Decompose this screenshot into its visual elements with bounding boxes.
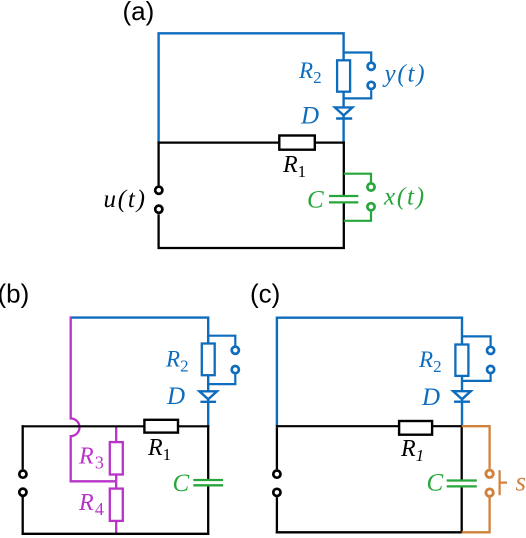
svg-text:R2: R2 — [418, 347, 442, 376]
terminal (b) input lower — [19, 489, 26, 496]
svg-text:R3: R3 — [78, 444, 104, 473]
svg-text:C: C — [427, 470, 444, 497]
svg-text:R2: R2 — [298, 58, 322, 87]
wire: (b) blue R2 bottom to diode — [207, 375, 209, 392]
wire: (b) blue branch from lower terminal — [208, 373, 235, 384]
terminal (b) upper — [232, 347, 239, 354]
diode D (c) cathode bar — [454, 401, 470, 403]
svg-text:(b): (b) — [0, 279, 29, 309]
terminal u(t) lower (a) — [155, 206, 162, 213]
resistor R2 (c) — [455, 345, 468, 376]
switch s actuator bar (c) — [500, 470, 507, 495]
wire: (a) blue vertical R2 bottom to diode — [342, 91, 344, 108]
wire: green branch to x(t) upper terminal (a) — [344, 174, 371, 183]
wire: (b) blue top edge — [71, 318, 209, 344]
svg-text:s: s — [516, 467, 526, 497]
wire: (a) black loop left edge upper — [157, 142, 159, 186]
svg-text:R1: R1 — [147, 435, 171, 464]
terminal (c) lower — [487, 366, 494, 373]
terminal x(t) lower (a) — [367, 203, 374, 210]
wire: (a) blue diode to black loop — [342, 115, 344, 143]
terminal switch lower (c) — [486, 489, 493, 496]
terminal (c) input lower — [273, 489, 280, 496]
svg-text:D: D — [300, 103, 319, 130]
resistor R1 (b) — [144, 420, 178, 433]
wire: (b) black loop top edge — [22, 425, 210, 427]
wire: (c) black loop right edge lower — [461, 487, 463, 534]
terminal x(t) upper (a) — [367, 183, 374, 190]
wire: (a) black loop right edge upper — [343, 142, 345, 195]
wire: (c) blue diode to black loop — [461, 399, 463, 426]
svg-text:R2: R2 — [165, 347, 189, 376]
wire: (a) blue branch to y(t) upper terminal — [344, 53, 372, 62]
wire: (b) magenta junction to R4 — [115, 481, 117, 488]
wire: green branch from x(t) lower terminal (a) — [344, 212, 371, 221]
resistor R4 (b) — [110, 489, 123, 521]
wire: (c) orange branch top — [462, 426, 490, 468]
wire: (c) black loop top edge — [276, 425, 463, 427]
diode D (b) cathode bar — [200, 401, 216, 403]
wire: (b) magenta left vertical with hop over black edge — [71, 316, 117, 481]
terminal (b) input upper — [19, 471, 26, 478]
wire: (b) black loop right edge upper — [207, 425, 209, 479]
svg-text:C: C — [307, 187, 324, 214]
wire: (b) blue branch to upper terminal — [208, 336, 235, 347]
diode D (c) triangle — [453, 391, 471, 399]
capacitor C (b) plates — [193, 480, 223, 485]
terminal y(t) upper (a) — [368, 63, 375, 70]
resistor R3 (b) — [110, 442, 123, 474]
terminal (b) lower — [232, 366, 239, 373]
wire: (b) black loop bottom edge — [22, 533, 210, 535]
capacitor C (a) plates — [329, 196, 358, 202]
terminal switch upper (c) — [486, 470, 493, 477]
svg-text:x(t): x(t) — [383, 184, 426, 211]
svg-text:C: C — [173, 470, 190, 497]
wire: (b) black loop right edge lower — [207, 486, 209, 535]
svg-text:R4: R4 — [78, 490, 104, 519]
resistor R2 (a) — [337, 60, 350, 91]
wire: (b) magenta between R3 and junction — [115, 475, 117, 482]
capacitor C (c) plates — [447, 481, 477, 487]
terminal u(t) upper (a) — [155, 187, 162, 194]
terminal (c) input upper — [273, 471, 280, 478]
svg-text:(c): (c) — [250, 279, 280, 309]
wire: (b) black loop left edge lower — [22, 497, 24, 535]
wire: (a) black loop right edge lower — [343, 203, 345, 249]
diode D (a) triangle — [335, 107, 353, 115]
svg-text:R1: R1 — [400, 436, 424, 465]
terminal y(t) lower (a) — [368, 82, 375, 89]
svg-text:y(t): y(t) — [382, 61, 427, 88]
diode D (b) triangle — [199, 391, 217, 399]
svg-text:D: D — [166, 383, 185, 410]
wire: (c) orange branch bottom — [462, 498, 490, 533]
wire: (c) black loop bottom edge — [276, 531, 463, 533]
resistor R2 (b) — [202, 344, 215, 376]
wire: (b) magenta R3 top lead — [115, 426, 117, 442]
terminal (c) upper — [487, 347, 494, 354]
wire: (b) magenta R4 bottom lead — [115, 521, 117, 534]
svg-text:u(t): u(t) — [104, 186, 147, 213]
resistor R1 (c) — [399, 421, 432, 435]
wire: (a) blue loop left+top — [159, 33, 344, 143]
wire: (c) black loop right edge upper — [461, 425, 463, 479]
svg-text:D: D — [421, 384, 440, 411]
wire: (b) black loop left edge upper — [22, 425, 24, 469]
svg-text:(a): (a) — [123, 0, 155, 26]
wire: (a) black loop left edge lower — [157, 214, 159, 249]
wire: (a) black loop top edge — [158, 142, 346, 144]
wire: (a) blue branch from y(t) lower terminal — [344, 90, 372, 98]
wire: (c) black loop left edge upper — [276, 427, 278, 469]
diode D (a) cathode bar — [336, 117, 352, 119]
wire: (c) blue left+top edge — [277, 318, 462, 427]
wire: (c) black loop left edge lower — [276, 497, 278, 533]
svg-text:R1: R1 — [282, 152, 306, 181]
wire: (c) blue branch to upper terminal — [462, 336, 491, 347]
wire: (c) blue branch from lower terminal — [462, 373, 491, 381]
wire: (a) black loop bottom edge — [158, 247, 346, 249]
resistor R1 (a) — [279, 136, 315, 150]
wire: (c) blue R2 bottom to diode — [461, 375, 463, 391]
wire: (b) blue diode to black loop — [207, 399, 209, 427]
